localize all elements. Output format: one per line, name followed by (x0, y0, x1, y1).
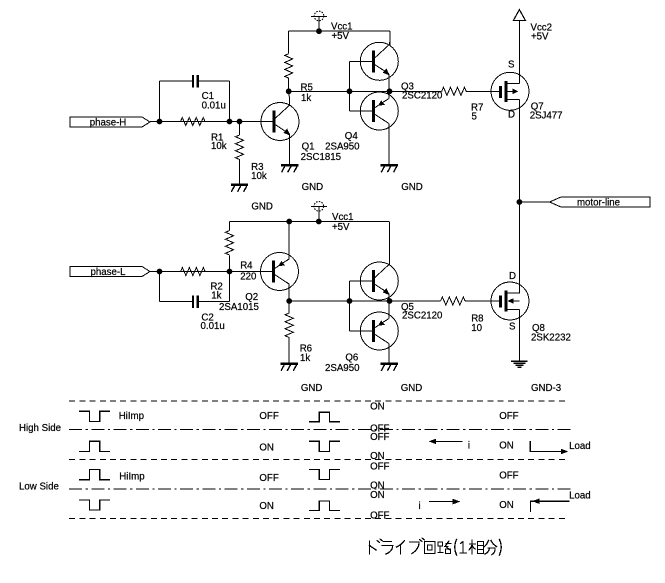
wire Q4 collector (388, 124, 390, 164)
svg-text:OFF: OFF (370, 432, 389, 443)
timing dash-dot line 1 (69, 429, 571, 431)
waveform row4 input (79, 500, 110, 510)
wire to R7 (390, 90, 442, 92)
label R5 value (301, 82, 313, 104)
svg-text:1k: 1k (211, 290, 221, 301)
resistor R3 (236, 135, 244, 160)
label Q5 (401, 302, 443, 321)
node push-pull output lower (387, 298, 393, 304)
wire Q3 base (350, 60, 374, 62)
wire R5 top (288, 31, 290, 54)
wire Q6 base (350, 330, 374, 332)
node motor-line junction (517, 199, 523, 205)
label R8 value (471, 313, 483, 334)
svg-text:ON: ON (499, 500, 514, 511)
svg-text:ON: ON (370, 451, 385, 462)
wire base row upper (160, 121, 275, 123)
label Vcc1 lower (332, 212, 354, 233)
label Q1 (301, 142, 341, 163)
wire Q3 emitter stub (388, 74, 390, 91)
svg-text:10k: 10k (251, 171, 267, 182)
timing dashed line 2 (69, 459, 569, 461)
wire Q3 collector (389, 31, 391, 45)
svg-text:OFF: OFF (259, 411, 278, 422)
wire R4 bottom (229, 256, 231, 272)
svg-text:OFF: OFF (259, 473, 278, 484)
wire R4 top (229, 222, 231, 231)
svg-text:10k: 10k (211, 141, 227, 152)
transistor Q4 (360, 92, 398, 130)
capacitor C2 (193, 296, 198, 309)
waveform row3 mid (309, 470, 340, 480)
svg-text:0.01u: 0.01u (202, 100, 226, 111)
node Q2 collector junction (286, 298, 292, 304)
svg-text:ON: ON (259, 443, 274, 454)
wire R6 top (288, 301, 290, 313)
wire C2 right branch (198, 272, 230, 302)
svg-text:1k: 1k (301, 93, 311, 104)
ground R3 (231, 185, 248, 192)
svg-text:+5V: +5V (332, 222, 350, 233)
label Q8 pins (509, 271, 516, 332)
label R6 value (300, 344, 312, 364)
svg-text:+5V: +5V (332, 31, 350, 42)
wire Q5 collector (389, 222, 391, 265)
transistor Q3 (360, 42, 398, 80)
svg-text:Load: Load (569, 441, 591, 452)
wire Vcc1 stem (318, 16, 320, 31)
waveform row1 input (79, 411, 110, 421)
svg-text:5: 5 (472, 111, 477, 122)
svg-text:1k: 1k (300, 353, 310, 364)
waveform row3 input (79, 470, 110, 480)
power Vcc1 lower symbol (311, 202, 327, 212)
node R5 Q1 junction (286, 88, 292, 94)
svg-text:ON: ON (499, 441, 514, 452)
wire Q6 emitter stub (388, 301, 390, 318)
wire base line vertical (349, 61, 351, 111)
wire R6 bottom (288, 337, 290, 362)
svg-text:GND: GND (302, 182, 324, 193)
wire R8 to Q8 gate (465, 300, 500, 302)
wire Q1 emitter (289, 134, 291, 164)
wire R3 top (239, 122, 241, 136)
wire Vcc2 to Q7 S (518, 21, 520, 84)
label Q2 (219, 292, 259, 313)
node phase-H junction (157, 119, 163, 125)
wire node row to bases (289, 90, 390, 92)
wire phase-H to node (150, 121, 160, 123)
svg-text:D: D (508, 109, 515, 120)
wire rail corner to Q3 (389, 31, 391, 45)
wire C1 left branch (160, 81, 194, 122)
svg-text:OFF: OFF (499, 411, 518, 422)
wire Q4 emitter stub (388, 91, 390, 98)
svg-text:GND: GND (401, 383, 423, 394)
svg-text:OFF: OFF (370, 510, 389, 521)
power Vcc1 upper symbol (311, 11, 327, 21)
resistor R5 (285, 54, 293, 78)
ground earth GND-3 (511, 361, 528, 367)
svg-text:Low Side: Low Side (19, 482, 59, 493)
label Vcc2 (531, 22, 553, 42)
resistor R4 (226, 231, 234, 256)
label Q7 pins (508, 60, 515, 121)
svg-text:GND-3: GND-3 (531, 383, 561, 394)
svg-text:2SC2120: 2SC2120 (402, 90, 443, 101)
wire to R8 (390, 300, 441, 302)
wire Vcc1 lower stem (318, 207, 320, 222)
load symbol row4 (531, 498, 570, 512)
wire R3 bottom (239, 159, 241, 184)
arrow current row2 (429, 439, 463, 445)
wire base row lower (160, 271, 275, 273)
transistor Q1 (261, 103, 299, 141)
wire Q5 emitter stub (388, 294, 390, 301)
wire to motor-line flag (519, 201, 549, 203)
svg-text:HiImp: HiImp (119, 471, 144, 482)
svg-text:2SC1815: 2SC1815 (301, 152, 341, 163)
wire Q2 emitter (288, 222, 290, 259)
node base line junction (347, 88, 353, 94)
waveform row4 mid (309, 501, 340, 511)
mosfet Q7 (491, 72, 529, 110)
wire Q2 collector (288, 284, 290, 301)
label Q3 (401, 81, 443, 101)
svg-text:motor-line: motor-line (577, 197, 620, 208)
title drive circuit (1 phase) (370, 538, 502, 555)
label R1 value (211, 132, 227, 152)
input flag phase-H (70, 117, 150, 128)
svg-text:OFF: OFF (499, 470, 518, 481)
wire Q4 base (350, 110, 374, 112)
svg-text:2SA950: 2SA950 (325, 363, 360, 374)
svg-text:2SA950: 2SA950 (325, 142, 360, 153)
label Q8 (531, 323, 571, 343)
svg-text:S: S (509, 322, 516, 333)
waveform row1 mid (309, 412, 340, 421)
label R7 value (471, 102, 483, 122)
label R2 value (210, 281, 222, 301)
svg-text:i: i (468, 440, 470, 451)
node R4 junction (227, 269, 233, 275)
wire R5 bottom (288, 78, 290, 92)
svg-text:GND: GND (401, 182, 423, 193)
node Vcc1 rail (316, 28, 322, 34)
capacitor C1 (193, 75, 198, 88)
ground R6 (281, 364, 298, 371)
label Q4 (325, 131, 360, 153)
svg-text:D: D (509, 271, 516, 282)
svg-text:ON: ON (370, 402, 385, 413)
wire Q1 collector (288, 91, 291, 105)
resistor R7 (442, 87, 467, 95)
label Q7 (530, 101, 563, 121)
svg-text:2SA1015: 2SA1015 (219, 302, 259, 313)
transistor Q2 (261, 253, 299, 291)
waveform row2 mid (309, 441, 340, 451)
arrow current row4 (429, 499, 460, 505)
wire phase-L to node (150, 271, 160, 273)
node base line lower junction (347, 298, 353, 304)
load symbol row2 (530, 441, 568, 455)
timing dash-dot line 2 (69, 488, 571, 490)
waveform row2 input (79, 441, 110, 451)
svg-text:i: i (419, 501, 421, 512)
label R4 value (240, 261, 257, 283)
svg-text:Load: Load (569, 490, 591, 501)
ground Q6 (381, 364, 398, 371)
svg-text:S: S (508, 60, 515, 71)
wire C1 right branch (198, 81, 230, 122)
svg-text:10: 10 (471, 323, 482, 334)
wire Vcc1 rail upper (289, 30, 390, 32)
resistor R2 (181, 268, 206, 276)
node Q2 emitter rail (286, 219, 292, 225)
svg-text:GND: GND (251, 202, 273, 213)
svg-text:R4: R4 (240, 261, 253, 272)
svg-text:Q6: Q6 (345, 352, 358, 363)
wire Vcc1 rail lower (230, 221, 390, 223)
svg-text:+5V: +5V (531, 31, 549, 42)
wire base line lower vertical (349, 281, 351, 331)
node push-pull output upper (387, 88, 393, 94)
label C1 value (202, 91, 226, 112)
svg-text:High Side: High Side (19, 423, 61, 434)
transistor Q6 (360, 312, 398, 350)
svg-text:ON: ON (259, 501, 274, 512)
svg-text:GND: GND (301, 383, 323, 394)
transistor Q5 (360, 262, 398, 300)
svg-text:ON: ON (370, 490, 385, 501)
label C2 value (201, 312, 225, 332)
svg-text:2SC2120: 2SC2120 (402, 310, 443, 321)
node Vcc1 lower rail (316, 219, 322, 225)
wire C2 left branch (160, 272, 194, 302)
input flag phase-L (70, 267, 150, 278)
label R3 value (251, 162, 267, 182)
resistor R8 (441, 297, 466, 305)
resistor R1 (181, 118, 206, 126)
svg-text:OFF: OFF (370, 461, 389, 472)
mosfet Q8 (491, 282, 529, 320)
wire R7 to Q7 gate (466, 90, 500, 92)
timing dashed line 3 (69, 518, 569, 520)
output flag motor-line (550, 197, 651, 208)
svg-text:2SJ477: 2SJ477 (530, 110, 563, 121)
ground Q1 (281, 165, 298, 172)
node C1 junction (227, 119, 233, 125)
node R3 junction (237, 119, 243, 125)
wire Q5 base (350, 280, 374, 282)
wire Q7 D to Q8 D (518, 100, 520, 294)
svg-text:phase-L: phase-L (90, 267, 126, 278)
timing dashed line 1 (69, 400, 569, 402)
wire Q6 collector (388, 344, 390, 363)
svg-text:phase-H: phase-H (90, 117, 127, 128)
svg-text:HiImp: HiImp (119, 411, 144, 422)
node phase-L junction (157, 269, 163, 275)
svg-text:2SK2232: 2SK2232 (531, 332, 571, 343)
label Vcc1 upper (331, 22, 353, 42)
ground Q4 (381, 165, 398, 172)
resistor R6 (285, 313, 293, 338)
svg-text:220: 220 (240, 271, 257, 282)
wire node row lower (289, 300, 389, 302)
power Vcc2 symbol (513, 10, 525, 21)
svg-text:0.01u: 0.01u (201, 321, 225, 332)
wire Q8 S to ground (518, 310, 520, 362)
label Q6 (325, 352, 360, 374)
svg-text:Q4: Q4 (345, 131, 359, 142)
